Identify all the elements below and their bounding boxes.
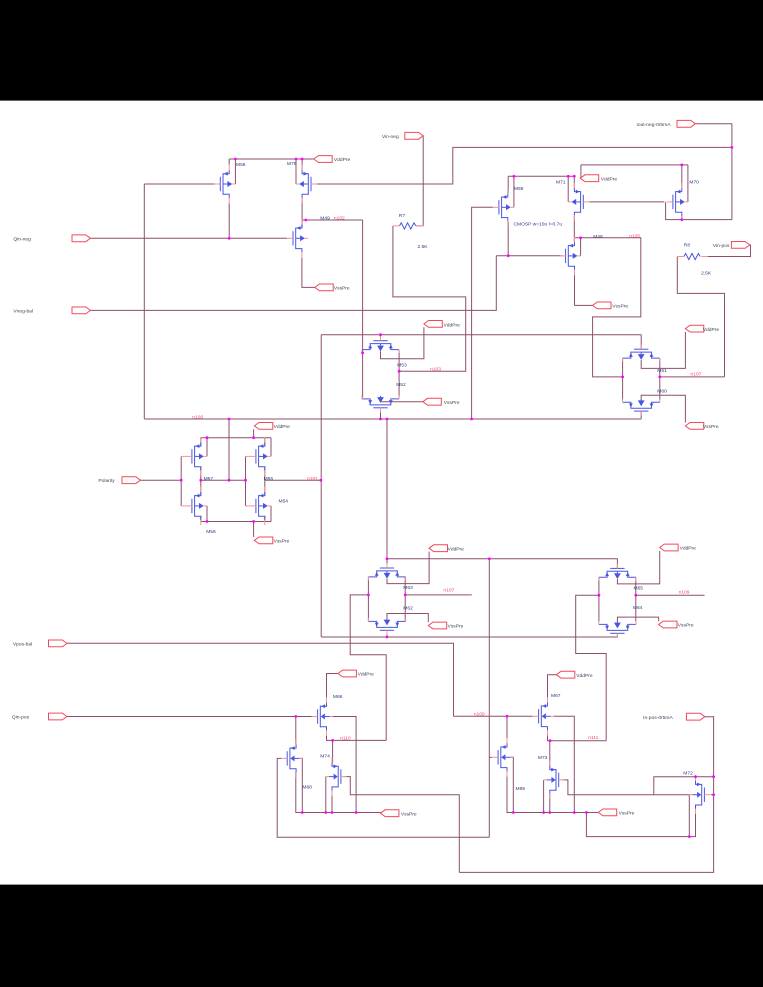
port Qin-pos bbox=[12, 713, 67, 721]
junction at 362.6,352.9 bbox=[361, 352, 364, 355]
net label n102 bbox=[334, 215, 345, 221]
wire gate line M63-M65 bbox=[387, 559, 617, 569]
svg-text:M62: M62 bbox=[403, 606, 413, 612]
junction at 635.8,595.2 bbox=[634, 594, 637, 597]
wire M66 source to VddPre bbox=[327, 674, 339, 698]
label M63 bbox=[403, 585, 413, 591]
wire M67 drain n111 bbox=[548, 736, 607, 741]
svg-text:n109: n109 bbox=[679, 589, 690, 595]
transistor M60 bbox=[623, 399, 660, 416]
net label n101 bbox=[307, 476, 318, 482]
label R8 bbox=[684, 243, 691, 249]
junction at 332.6,740.4 bbox=[331, 739, 334, 742]
svg-text:M73: M73 bbox=[538, 755, 548, 761]
transistor M49 bbox=[287, 219, 308, 258]
junction at 550,740.7 bbox=[549, 739, 552, 742]
junction at 659.8,376.9 bbox=[658, 376, 661, 379]
label M52 bbox=[396, 382, 406, 388]
wire inverter1 input bracket bbox=[181, 456, 186, 506]
label M61 bbox=[657, 368, 667, 374]
transistor M66 bbox=[312, 697, 333, 736]
wire Vneg-bal net bbox=[90, 256, 496, 311]
junction at 513.9,176.3 bbox=[513, 175, 516, 178]
svg-text:VddPre: VddPre bbox=[358, 672, 375, 678]
label M74 bbox=[320, 753, 330, 759]
junction at 507,716.3 bbox=[506, 715, 509, 718]
wire gate rail n101 lower bbox=[321, 636, 617, 638]
port VddPre M67 bbox=[556, 671, 592, 679]
svg-text:VddPre: VddPre bbox=[274, 424, 291, 430]
svg-text:CMOSP w=10u l=0.7u: CMOSP w=10u l=0.7u bbox=[514, 221, 563, 227]
wire M66 drain n110 bbox=[327, 736, 387, 741]
label M70 bbox=[689, 180, 699, 186]
port Iout-neg-0r5mA bbox=[637, 120, 696, 128]
transistor M57 bbox=[186, 437, 207, 476]
svg-text:M65: M65 bbox=[634, 585, 644, 591]
transistor M75 bbox=[296, 165, 317, 204]
svg-text:n107: n107 bbox=[691, 371, 702, 377]
svg-text:M48: M48 bbox=[593, 234, 603, 240]
svg-text:n111: n111 bbox=[588, 735, 598, 741]
svg-text:n103: n103 bbox=[430, 367, 441, 373]
wire M72 gate to In-pos net bbox=[711, 794, 714, 796]
wire M61 bulk to VddPre bbox=[641, 332, 685, 368]
wire Iout-neg port lead bbox=[695, 124, 732, 220]
label M71 bbox=[556, 180, 566, 186]
junction at 713.6,776.7 bbox=[712, 775, 715, 778]
port VssPre M48 bbox=[593, 302, 629, 310]
junction at 302.3,812.5 bbox=[301, 811, 304, 814]
junction at 681.8,164.9 bbox=[680, 164, 683, 167]
svg-text:VddPre: VddPre bbox=[334, 157, 351, 163]
svg-text:n101: n101 bbox=[307, 476, 318, 482]
svg-text:M54: M54 bbox=[279, 498, 289, 504]
svg-text:2.5K: 2.5K bbox=[418, 244, 429, 250]
svg-text:VssPre: VssPre bbox=[444, 400, 460, 406]
junction at 574.3,176.3 bbox=[573, 175, 576, 178]
junction at 387,419 bbox=[386, 418, 389, 421]
svg-text:M71: M71 bbox=[556, 180, 566, 186]
wire right pair tap to n111 bbox=[576, 595, 607, 741]
port Vpos-bal bbox=[13, 640, 67, 648]
port VddPre top-right bbox=[580, 175, 617, 183]
wire inverter2 output n101 bbox=[265, 467, 321, 496]
wire n100 to inverter input bbox=[228, 419, 230, 480]
wire M69 bulk to rail bbox=[510, 757, 514, 812]
junction at 731.9,147.4 bbox=[731, 146, 734, 149]
wire M48 source to VssPre bbox=[575, 270, 593, 305]
wire M67 source to VddPre bbox=[548, 675, 557, 697]
wire M73 bulk to rail bbox=[543, 780, 545, 813]
port VddPre M66 bbox=[338, 670, 374, 678]
wire M74 source to rail bbox=[331, 791, 333, 813]
wire Qin-neg net bbox=[90, 237, 287, 239]
junction at 320.9,480.2 bbox=[320, 479, 323, 482]
wire M59 gate to n100 rail bbox=[472, 207, 493, 419]
wire M67 bulk down to VssPre rail bbox=[554, 716, 575, 812]
wire M69 gate bbox=[489, 756, 492, 758]
transistor M73 bbox=[544, 761, 565, 800]
svg-text:M59: M59 bbox=[514, 186, 524, 192]
junction at 380.5,334.7 bbox=[379, 333, 382, 336]
transistor M72 bbox=[689, 775, 710, 814]
label CMOSP w=10u l=0.7u bbox=[514, 221, 563, 227]
junction at 387,637 bbox=[386, 636, 389, 639]
port Vin-pos bbox=[713, 242, 750, 250]
transistor M59 bbox=[493, 188, 514, 227]
junction at 325.8,812.5 bbox=[324, 811, 327, 814]
transistor M63 bbox=[368, 563, 405, 580]
svg-text:M68: M68 bbox=[302, 784, 312, 790]
net label n107 bbox=[443, 587, 454, 593]
wire inverter1 output bbox=[201, 467, 246, 496]
junction at 471.6,419 bbox=[470, 418, 473, 421]
svg-text:Qin-neg: Qin-neg bbox=[13, 236, 31, 242]
wire M63 bulk to VddPre bbox=[387, 552, 429, 584]
junction at 513.3,812.5 bbox=[512, 811, 515, 814]
resistor R8 bbox=[677, 253, 708, 259]
port VddPre M65 bbox=[660, 544, 696, 552]
value label 2.5K for R8 bbox=[701, 270, 712, 276]
junction at 332,812.5 bbox=[331, 811, 334, 814]
wire M68 gate loop bbox=[277, 758, 489, 837]
wire loop B bottom bbox=[459, 795, 713, 873]
svg-text:n102: n102 bbox=[334, 215, 345, 221]
wire inverter2 input bracket bbox=[246, 456, 251, 506]
label M57 bbox=[204, 476, 214, 482]
junction at 253.6,437.7 bbox=[252, 436, 255, 439]
transistor M58 bbox=[214, 165, 235, 204]
junction at 574.3,812.5 bbox=[573, 811, 576, 814]
junction at 229,480.2 bbox=[228, 479, 231, 482]
wire M65 bulk to VddPre bbox=[617, 551, 659, 584]
svg-text:M72: M72 bbox=[683, 771, 693, 777]
svg-text:M63: M63 bbox=[403, 585, 413, 591]
port VssPre pair1 bbox=[423, 398, 460, 406]
svg-text:Vneg-bal: Vneg-bal bbox=[13, 308, 33, 314]
junction at 302.1,159 bbox=[301, 158, 304, 161]
junction at 405.2,594.9 bbox=[404, 594, 407, 597]
label M72 bbox=[683, 771, 693, 777]
wire n105 net bbox=[574, 238, 641, 377]
wire M64 gate bbox=[616, 633, 618, 637]
junction at 568.2,176.3 bbox=[567, 175, 570, 178]
svg-text:n107: n107 bbox=[443, 587, 454, 593]
svg-text:M58: M58 bbox=[236, 162, 246, 168]
wire M66 bulk down to VssPre rail bbox=[333, 717, 356, 813]
label M73 bbox=[538, 755, 548, 761]
wire inverter VddPre rail bbox=[201, 429, 271, 456]
svg-text:M61: M61 bbox=[657, 368, 667, 374]
wire M60 bulk to VssPre bbox=[641, 395, 685, 422]
net label n107 bbox=[691, 371, 702, 377]
label M49 bbox=[320, 215, 330, 221]
wire M69 top to n109 bbox=[506, 716, 508, 743]
label M54 bbox=[279, 498, 289, 504]
svg-text:R8: R8 bbox=[684, 243, 691, 249]
net label n105 bbox=[629, 234, 640, 240]
wire n100 rail bbox=[144, 418, 641, 420]
port VddPre M61 bbox=[685, 325, 719, 333]
svg-text:Qin-pos: Qin-pos bbox=[12, 715, 30, 721]
svg-text:M53: M53 bbox=[397, 362, 407, 368]
port Vin-neg bbox=[382, 132, 423, 140]
wire pair M63/M62 right column n107 bbox=[405, 577, 472, 621]
svg-text:M75: M75 bbox=[287, 161, 297, 167]
wire M75 gate to Iout rail bbox=[317, 147, 732, 184]
junction at 296,159 bbox=[295, 158, 298, 161]
net label n103 bbox=[430, 367, 441, 373]
svg-text:M56: M56 bbox=[206, 529, 216, 535]
transistor M67 bbox=[533, 697, 554, 736]
wire Qin-pos net bbox=[67, 716, 312, 718]
svg-text:M55: M55 bbox=[264, 476, 274, 482]
svg-text:VssPre: VssPre bbox=[401, 811, 417, 817]
wire M74 bulk to rail bbox=[325, 777, 327, 813]
wire M71 drain to M48 drain bbox=[573, 216, 575, 242]
transistor M54 bbox=[250, 487, 271, 526]
label M60 bbox=[657, 388, 667, 394]
junction at 387,558.8 bbox=[386, 557, 389, 560]
port In-pos-0r5mA bbox=[643, 713, 705, 721]
junction at 380.5,419 bbox=[379, 418, 382, 421]
svg-text:Vpos-bal: Vpos-bal bbox=[13, 642, 32, 648]
port VssPre rail-left bbox=[381, 810, 417, 818]
port Polarity bbox=[98, 477, 140, 484]
label M75 bbox=[287, 161, 297, 167]
wire M49 source to VssPre bbox=[302, 258, 315, 288]
svg-text:VddPre: VddPre bbox=[444, 322, 461, 328]
port VssPre inverter bbox=[254, 537, 289, 545]
wire M59 drain / M48 gate bbox=[496, 222, 562, 256]
svg-text:n110: n110 bbox=[340, 735, 351, 741]
wire M62 gate to gate rail bbox=[386, 630, 388, 637]
junction at 713.6,794.8 bbox=[712, 793, 715, 796]
wire In-pos port net bbox=[705, 717, 714, 795]
transistor M70 bbox=[667, 183, 688, 222]
wire inverter VssPre rail bbox=[201, 506, 271, 537]
port VssPre M60 bbox=[685, 423, 718, 431]
wire n101 vertical lower bbox=[320, 480, 322, 637]
svg-text:2.5K: 2.5K bbox=[701, 270, 712, 276]
wire M63 gate from n100 bbox=[386, 419, 388, 568]
resistor R7 bbox=[393, 223, 424, 229]
wire M60 gate to n100 bbox=[640, 411, 642, 419]
transistor M62 bbox=[368, 618, 405, 635]
port VddPre inverter bbox=[254, 423, 290, 431]
label M64 bbox=[633, 605, 643, 611]
junction at 245.5,480.2 bbox=[244, 479, 247, 482]
junction at 543.6,812.5 bbox=[542, 811, 545, 814]
svg-text:n105: n105 bbox=[629, 234, 640, 240]
wire M61 gate from n101 rail bbox=[640, 335, 642, 350]
wire pair M65/M64 right column n109 bbox=[636, 578, 705, 622]
junction at 508.2,255.7 bbox=[507, 254, 510, 257]
svg-text:n109: n109 bbox=[474, 712, 485, 718]
label M53 bbox=[397, 362, 407, 368]
transistor M68 bbox=[281, 739, 302, 778]
wire VddPre rail top-left bbox=[229, 159, 314, 184]
wire M61/M60 left column bbox=[622, 359, 624, 400]
port VddPre pair1 bbox=[424, 321, 460, 329]
wire pair M53 bulk to VddPre bbox=[381, 327, 424, 358]
port VssPre rail-right bbox=[598, 809, 634, 817]
wire M72 drain line bbox=[654, 777, 714, 795]
wire M70 drain loop bbox=[666, 202, 732, 220]
transistor M74 bbox=[326, 757, 347, 796]
port Vneg-bal bbox=[13, 307, 90, 314]
port VssPre M64 bbox=[659, 621, 694, 629]
label M66 bbox=[333, 694, 343, 700]
wire n102 vertical to pair M53/M52 bbox=[362, 220, 364, 353]
svg-text:VddPre: VddPre bbox=[703, 327, 720, 333]
port VssPre M49 bbox=[315, 284, 350, 292]
junction at 622.6,376.9 bbox=[621, 376, 624, 379]
junction at 695.5,776.7 bbox=[694, 775, 697, 778]
svg-text:VddPre: VddPre bbox=[448, 546, 465, 552]
label M59 bbox=[514, 186, 524, 192]
junction at 253.6,521.5 bbox=[252, 520, 255, 523]
svg-text:M52: M52 bbox=[396, 382, 406, 388]
junction at 368.4,594.9 bbox=[367, 594, 370, 597]
junction at 207,437.7 bbox=[206, 436, 209, 439]
junction at 235.4,159 bbox=[234, 158, 237, 161]
wire M62 bulk to VssPre bbox=[387, 614, 428, 623]
wire pair1 left column bbox=[362, 350, 364, 397]
wire M74 top to n110 bbox=[332, 740, 334, 763]
label M58 bbox=[236, 162, 246, 168]
junction at 489.3,558.8 bbox=[488, 557, 491, 560]
net label n109 bbox=[474, 712, 485, 718]
wire M68 top to Qin-pos bbox=[295, 717, 297, 745]
port Qin-neg bbox=[13, 235, 90, 242]
net label n100 bbox=[192, 415, 203, 421]
wire n100 gate line M58/M75 bbox=[144, 183, 214, 185]
wire M75 source/bulk to rail bbox=[296, 159, 302, 184]
svg-text:In-pos-0r5mA: In-pos-0r5mA bbox=[643, 715, 673, 721]
junction at 229,419 bbox=[228, 418, 231, 421]
wire pair M63/M62 left column bbox=[367, 577, 369, 621]
wire VssPre rail left bbox=[0, 0, 1, 1]
wire M59 source to rail bbox=[508, 176, 514, 207]
net label n111 bbox=[588, 735, 598, 741]
label M67 bbox=[551, 693, 561, 699]
wire M73 source to rail bbox=[549, 794, 551, 813]
wire M68 bulk to rail bbox=[299, 758, 302, 812]
wire gate-line vertical down to M69 gate and loop bbox=[488, 559, 490, 838]
svg-text:Iout-neg-0r5mA: Iout-neg-0r5mA bbox=[637, 122, 672, 128]
transistor M71 bbox=[568, 183, 589, 222]
wire Vin-pos R8 net to n107 bbox=[677, 245, 750, 377]
wire pair M53 gate bbox=[380, 335, 382, 341]
wire M72 bulk down to source return bbox=[688, 795, 690, 837]
svg-text:VssPre: VssPre bbox=[448, 624, 464, 630]
svg-text:M60: M60 bbox=[657, 388, 667, 394]
wire pair M52 bulk to VssPre bbox=[381, 399, 423, 402]
junction at 181.2,480.2 bbox=[180, 479, 183, 482]
junction at 207,521.5 bbox=[206, 520, 209, 523]
svg-text:VssPre: VssPre bbox=[703, 424, 719, 430]
transistor M52 bbox=[362, 395, 399, 412]
wire pair1 right column / n103 tap bbox=[398, 350, 400, 397]
svg-text:M64: M64 bbox=[633, 605, 643, 611]
wire Vin-neg to R7 bbox=[416, 136, 423, 226]
label M68 bbox=[302, 784, 312, 790]
svg-text:M74: M74 bbox=[320, 753, 330, 759]
wire M58 drain to Qin-neg bbox=[228, 203, 230, 238]
wire R7 to n103 bbox=[393, 226, 466, 371]
transistor M53 bbox=[362, 336, 399, 353]
junction at 356.1,812.5 bbox=[355, 811, 358, 814]
junction at 229.2,238.3 bbox=[228, 237, 231, 240]
junction at 399.1,371.2 bbox=[398, 370, 401, 373]
value label 2.5K for R7 bbox=[418, 244, 429, 250]
junction at 586.4,812.5 bbox=[585, 811, 588, 814]
junction at 305.8,220 bbox=[304, 219, 307, 222]
wire pair M63/M62 left tap to n110 bbox=[350, 595, 386, 741]
label R7 bbox=[399, 213, 406, 219]
svg-text:Vin-neg: Vin-neg bbox=[382, 134, 399, 140]
transistor M65 bbox=[599, 564, 636, 581]
junction at 598.9,595.2 bbox=[598, 594, 601, 597]
wire pair M65/M64 left column bbox=[598, 578, 600, 622]
wire M64 bulk to VssPre bbox=[617, 617, 658, 623]
label M69 bbox=[516, 786, 526, 792]
transistor M64 bbox=[599, 621, 636, 638]
wire Polarity lead bbox=[140, 479, 181, 481]
junction at 549.8,812.5 bbox=[548, 811, 551, 814]
port VddPre top-left bbox=[314, 156, 351, 164]
svg-text:n100: n100 bbox=[192, 415, 203, 421]
wire M69 source to rail bbox=[507, 771, 598, 813]
junction at 689.3,836.6 bbox=[688, 835, 691, 838]
wire M61/M60 right column n107 bbox=[660, 359, 725, 400]
svg-text:VddPre: VddPre bbox=[576, 673, 593, 679]
svg-text:R7: R7 bbox=[399, 213, 406, 219]
wire n100 vertical bbox=[143, 184, 145, 419]
label M55 bbox=[264, 476, 274, 482]
label M65 bbox=[634, 585, 644, 591]
svg-text:M70: M70 bbox=[689, 180, 699, 186]
junction at 200.8,480.2 bbox=[199, 479, 202, 482]
svg-text:VssPre: VssPre bbox=[274, 539, 290, 545]
transistor M55 bbox=[250, 437, 271, 476]
svg-text:VssPre: VssPre bbox=[619, 811, 635, 817]
label M56 bbox=[206, 529, 216, 535]
wire M68 source to rail bbox=[296, 772, 381, 813]
svg-text:VddPre: VddPre bbox=[680, 546, 697, 552]
transistor M61 bbox=[623, 345, 660, 362]
port VssPre M62 bbox=[428, 622, 463, 630]
svg-text:M67: M67 bbox=[551, 693, 561, 699]
wire n101 rail upper bbox=[321, 335, 641, 481]
svg-text:VssPre: VssPre bbox=[612, 304, 628, 310]
svg-text:Vin-pos: Vin-pos bbox=[713, 243, 730, 249]
net label n109 bbox=[679, 589, 690, 595]
port VddPre M63 bbox=[429, 545, 464, 553]
svg-text:Polarity: Polarity bbox=[98, 478, 115, 484]
wire M72 source return to rail bbox=[586, 809, 695, 837]
svg-text:M69: M69 bbox=[516, 786, 526, 792]
svg-text:M49: M49 bbox=[320, 215, 330, 221]
junction at 681.8,219.6 bbox=[680, 218, 683, 221]
svg-text:M66: M66 bbox=[333, 694, 343, 700]
transistor M69 bbox=[492, 738, 513, 777]
svg-text:VssPre: VssPre bbox=[678, 623, 694, 629]
wire pair M52 gate to n100 bbox=[380, 408, 382, 419]
junction at 295.8,716.5 bbox=[294, 715, 297, 718]
wire M74 gate loop bbox=[344, 777, 459, 873]
